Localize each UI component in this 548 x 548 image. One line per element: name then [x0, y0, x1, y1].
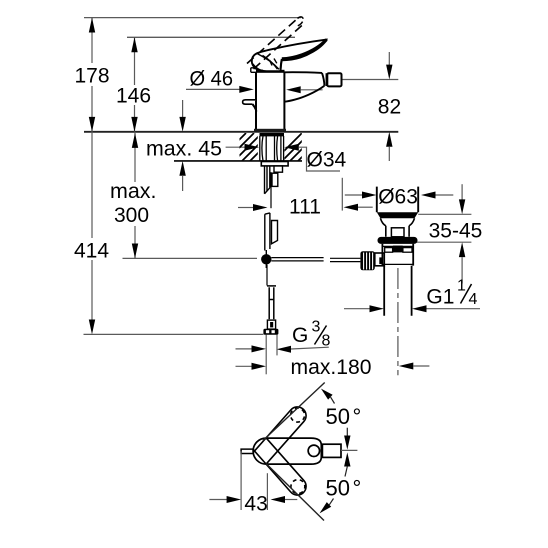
dim max45 upper arrow line [182, 100, 184, 117]
dim 43 left arrow [209, 499, 227, 501]
faucet spout [284, 72, 326, 101]
svg-text:300: 300 [114, 204, 149, 227]
dim max300 top arrow [132, 133, 138, 148]
drain neck flare [380, 218, 414, 226]
dim 178 bottom arrow [89, 117, 95, 132]
label 414 [72, 238, 110, 260]
dim 82 vertical line bottom [386, 132, 392, 147]
drain tailpipe [384, 266, 411, 316]
lift rod lower section [267, 286, 276, 319]
svg-text:35-45: 35-45 [429, 220, 483, 243]
pivot joint dot [265, 250, 267, 268]
dim G1-1/4 left arrow [344, 308, 371, 310]
svg-text:178: 178 [75, 65, 110, 88]
dim 35-45 top ref [418, 213, 471, 215]
plan view aerator block [322, 444, 341, 457]
wire deck top line [84, 131, 398, 133]
svg-text:414: 414 [74, 240, 109, 263]
drain flange gasket [378, 237, 418, 244]
dim 178/414 vertical line [91, 18, 93, 331]
G3/8 hex nut [263, 329, 278, 335]
dim 146 top arrow [131, 37, 137, 52]
dim G1-1/4 right arrow [412, 305, 427, 312]
lift rod end detail [267, 320, 275, 329]
dim max300 vertical line [134, 133, 136, 258]
drain body [382, 244, 413, 266]
faucet backnut washer [261, 162, 288, 166]
dim max300 bottom arrow [132, 244, 138, 259]
rod clamp connector [375, 253, 385, 266]
dim 111 right arrow [344, 204, 359, 211]
dim O46 left arrow [186, 88, 241, 90]
dim 35-45 bottom ref [415, 241, 471, 243]
dim max45 lower arrow line [182, 176, 184, 191]
faucet body [251, 68, 286, 132]
drain clamp detail [391, 228, 404, 237]
faucet left tab [243, 100, 257, 112]
dim max180 left arrow [236, 365, 253, 367]
svg-text:max.180: max.180 [291, 356, 372, 379]
dim 35-45 vertical top [461, 184, 463, 200]
wire handle-rest reference line (146 top) [127, 36, 295, 38]
plan view ghost handle upper [254, 403, 310, 463]
faucet shank at deck [260, 133, 285, 161]
svg-text:146: 146 [116, 85, 151, 108]
faucet right stub tube [274, 166, 283, 172]
dim 43 right extension [266, 473, 268, 510]
faucet aerator [327, 73, 341, 86]
dim 146 bottom arrow [131, 117, 137, 132]
label 146 [114, 85, 153, 105]
drain centerline [397, 268, 399, 375]
dashed raised handle [247, 19, 304, 70]
drain cap bottom rim [377, 212, 418, 218]
wire hose-end reference (414 bottom) [84, 333, 264, 335]
knurled adjuster knob [360, 251, 374, 270]
drain cap (O63) [377, 187, 418, 213]
pop-up rod wire below pivot [266, 265, 268, 286]
swivel boundary line lower [266, 464, 324, 521]
dim O63 right arrow [421, 192, 436, 199]
pop-up rod lower tube [265, 213, 270, 251]
svg-text:4: 4 [469, 291, 478, 308]
plan view ghost handle lower [254, 438, 310, 498]
handle chin shadow wedge [252, 64, 263, 72]
svg-text:Ø34: Ø34 [307, 149, 347, 172]
angle dim lower 50 [344, 452, 350, 466]
dim max180 right arrow [399, 363, 414, 370]
svg-text:3: 3 [312, 319, 321, 336]
dim 178 top arrow [89, 18, 95, 33]
dim O34 left tail and arrow [226, 146, 245, 148]
dim 43 right arrow [271, 496, 286, 503]
svg-text:G: G [292, 324, 308, 347]
faucet hose tail [265, 166, 270, 194]
dim 43 left extension [240, 451, 242, 510]
dim G3/8 left arrow [236, 348, 253, 350]
dim O46 right arrow [286, 86, 301, 93]
dim O34 right arrow and stepped leader [284, 144, 299, 151]
svg-text:Ø 46: Ø 46 [190, 68, 234, 91]
svg-text:111: 111 [289, 196, 321, 219]
svg-text:Ø63: Ø63 [378, 186, 418, 209]
svg-text:G1: G1 [426, 286, 454, 309]
drain neck [386, 226, 409, 237]
svg-text:max. 45: max. 45 [146, 138, 222, 161]
wire hose extension right [276, 335, 278, 356]
svg-text:max.: max. [110, 180, 157, 203]
plan view centerline right [341, 449, 357, 451]
wire spout outlet reference (82 top) [342, 79, 399, 81]
wire top reference line (raised handle top) [84, 17, 301, 19]
dim G3/8 right arrow [277, 346, 292, 353]
wire sink-bottom reference (max300 bottom) [123, 257, 258, 259]
dim 111 left arrow [238, 207, 253, 209]
plan view central spout [253, 438, 321, 464]
dim 414 bottom arrow [89, 320, 95, 335]
svg-text:1: 1 [457, 278, 466, 295]
dim 35-45 vertical bottom [459, 242, 465, 257]
horizontal actuating rod [271, 258, 360, 262]
wire spout tip extension [341, 178, 343, 211]
faucet handle [252, 40, 327, 72]
wire deck bottom line [174, 160, 302, 162]
pop-up rod guide lower [272, 221, 278, 244]
angle dim upper 50 [321, 389, 333, 400]
pop-up rod wire upper [270, 172, 272, 208]
dim O63 left arrow [345, 194, 363, 196]
svg-text:43: 43 [244, 493, 267, 516]
faucet cartridge dome [254, 54, 279, 71]
label max300 [106, 182, 161, 226]
swivel boundary line upper [263, 383, 325, 441]
svg-text:50°: 50° [326, 475, 362, 500]
dim 82 vertical line top [388, 52, 390, 65]
svg-text:50°: 50° [326, 404, 362, 429]
pop-up rod guide upper [272, 173, 278, 186]
dim 146 vertical line [134, 37, 136, 132]
svg-text:82: 82 [378, 96, 401, 119]
label 178 [72, 63, 112, 86]
plan view nose tab [241, 449, 253, 453]
wire hose extension left [265, 335, 267, 375]
